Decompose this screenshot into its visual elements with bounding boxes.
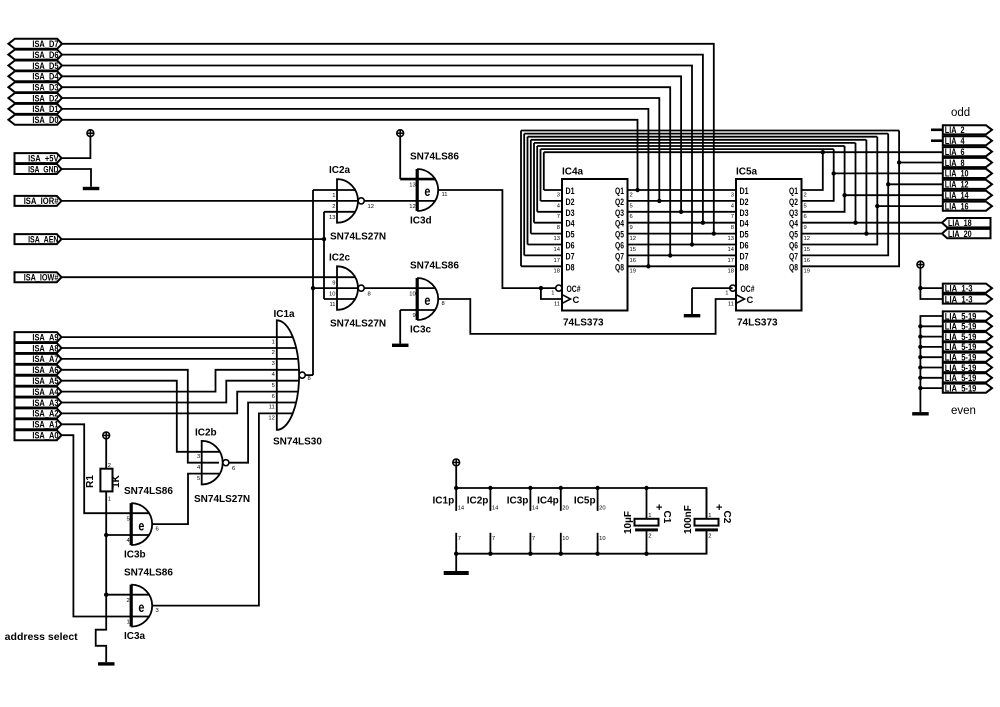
wire ISA_D3 to latch bus <box>62 87 670 255</box>
power symbol +5V (top left) <box>87 130 94 137</box>
pin 3 IC3a <box>156 608 159 614</box>
label D4/Q4 IC4a <box>557 218 633 231</box>
gate IC2c (3-in NOR) <box>337 266 358 310</box>
label even <box>951 405 976 417</box>
svg-text:Q6: Q6 <box>615 240 624 251</box>
svg-text:IC2c: IC2c <box>329 252 351 263</box>
svg-text:11: 11 <box>554 301 560 307</box>
gate IC1a (8-in NAND SN74LS30) <box>277 320 299 430</box>
latch IC4a (74LS373) <box>562 167 628 329</box>
wire ISA_+5V to power symbol <box>62 137 90 159</box>
svg-text:6: 6 <box>156 526 159 532</box>
svg-text:10: 10 <box>409 291 415 297</box>
wire IC5a Q5 to LIA_20 <box>802 233 943 235</box>
power pins IC3p <box>507 488 539 554</box>
svg-text:3: 3 <box>156 608 159 614</box>
svg-text:LIA_5-19: LIA_5-19 <box>945 342 977 352</box>
svg-text:D4: D4 <box>566 218 576 229</box>
connector LIA_1-3 (b) <box>943 294 992 304</box>
svg-text:5: 5 <box>197 476 200 482</box>
svg-text:18: 18 <box>554 269 560 275</box>
svg-text:e: e <box>138 599 144 615</box>
ground (address select) <box>98 662 115 665</box>
svg-text:17: 17 <box>728 258 734 264</box>
svg-text:1: 1 <box>272 339 275 345</box>
svg-text:Q8: Q8 <box>789 261 798 272</box>
pin 2 IC2a <box>332 204 335 210</box>
svg-text:SN74LS27N: SN74LS27N <box>330 232 386 243</box>
junction LIA_5-19 (2) <box>918 324 922 328</box>
gate IC3a (XOR) <box>131 585 152 627</box>
svg-text:2: 2 <box>648 533 651 539</box>
svg-text:8: 8 <box>368 291 371 297</box>
wire R1 net to IC3a pin2 <box>106 594 149 596</box>
connector LIA_4 <box>943 136 992 146</box>
svg-text:14: 14 <box>458 506 465 512</box>
svg-text:IC3b: IC3b <box>124 550 146 561</box>
junction Q3/LIA <box>842 193 846 197</box>
svg-text:1: 1 <box>126 620 129 626</box>
svg-text:D8: D8 <box>566 261 575 272</box>
connector LIA_5-19 (6) <box>943 363 992 373</box>
wire power stem <box>455 466 457 488</box>
pin 11 IC3d <box>442 192 448 198</box>
pin 2 R1 <box>108 463 111 469</box>
svg-text:7: 7 <box>731 214 734 220</box>
pin 11 IC2c <box>329 302 335 308</box>
label D5/Q5 IC5a <box>728 229 810 242</box>
wire LIA link net7 <box>888 183 943 185</box>
connector ISA_D3 <box>8 82 62 92</box>
svg-text:13: 13 <box>329 215 335 221</box>
label D8/Q8 IC4a <box>554 261 636 274</box>
wire ISA_IOR# to IC2a pin2 <box>62 200 358 202</box>
junction R1/IC3a pin2 <box>104 593 108 597</box>
svg-text:ISA_D3: ISA_D3 <box>32 83 58 93</box>
pin 8 IC2c <box>368 291 371 297</box>
pin 8 IC1a <box>308 376 311 382</box>
svg-text:ISA_GND: ISA_GND <box>28 164 59 174</box>
junction IC2p bottom <box>488 552 492 556</box>
label IC3a <box>124 631 146 642</box>
label address select <box>5 631 78 643</box>
svg-text:LIA_10: LIA_10 <box>945 169 969 179</box>
svg-text:LIA_18: LIA_18 <box>948 218 972 228</box>
pin 13 IC2a <box>329 215 335 221</box>
connector LIA_16 <box>943 201 992 211</box>
pin 10 IC3c <box>409 291 415 297</box>
wire LIA link net3 <box>845 194 943 196</box>
svg-text:LIA_5-19: LIA_5-19 <box>945 353 977 363</box>
wire IC1a out <box>305 374 313 376</box>
wire LIA link net8 <box>899 162 943 164</box>
wire IC2b out to IC1a pin11 <box>229 403 296 463</box>
svg-text:74LS373: 74LS373 <box>563 318 604 329</box>
junction IC3p top <box>528 486 532 490</box>
svg-text:LIA_1-3: LIA_1-3 <box>945 283 973 293</box>
label SN74LS27N (IC2a) <box>330 232 386 243</box>
svg-text:C: C <box>747 294 754 305</box>
wire bus net D4 bracket/bundle <box>534 143 856 223</box>
svg-text:3: 3 <box>272 361 275 367</box>
op IC5a OC# bubble+label <box>725 283 755 296</box>
wire bus net D7 bracket/bundle <box>524 134 888 256</box>
pin 6 IC3b <box>156 526 159 532</box>
wire IC5a Q1 riser <box>802 152 823 190</box>
svg-text:8: 8 <box>557 225 560 231</box>
label SN74LS27N (IC2c) <box>330 319 386 330</box>
svg-text:IC3c: IC3c <box>410 324 432 335</box>
svg-text:IC3p: IC3p <box>507 496 529 507</box>
wire IC3a out to IC1a pin12 <box>152 413 293 605</box>
op IC5a clock pin C <box>728 294 754 307</box>
svg-text:ISA_D2: ISA_D2 <box>32 93 58 103</box>
pin 3 IC2b <box>197 454 200 460</box>
wire IC4a Q3 to IC5a D3 <box>628 211 737 213</box>
svg-text:1: 1 <box>108 497 111 503</box>
wire ISA_A9 to IC1a pin1 <box>62 336 293 338</box>
svg-text:19: 19 <box>804 269 810 275</box>
ground (IC3c pin9) <box>392 344 409 347</box>
svg-text:6: 6 <box>804 214 807 220</box>
junction ISA_D7/Q row <box>712 231 716 235</box>
junction R1/IC3b pin4 <box>104 533 108 537</box>
label D7/Q7 IC5a <box>728 250 810 263</box>
svg-text:ISA_D0: ISA_D0 <box>32 115 58 125</box>
wire IC4a Q7 to IC5a D7 <box>628 254 737 256</box>
connector ISA_A9 <box>15 332 62 342</box>
svg-text:ISA_A3: ISA_A3 <box>32 398 58 408</box>
wire ISA_A3 to IC1a pin5 <box>62 381 299 403</box>
connector LIA_12 <box>943 180 992 190</box>
junction IC4p top <box>559 486 563 490</box>
op IC2b bubble <box>223 460 229 466</box>
svg-text:16: 16 <box>630 258 636 264</box>
svg-text:13: 13 <box>554 236 560 242</box>
svg-text:2: 2 <box>804 192 807 198</box>
wire ISA_A6 to IC2b pin4 <box>62 370 219 463</box>
svg-text:e: e <box>138 517 144 533</box>
label IC3d <box>410 215 432 226</box>
svg-text:OC#: OC# <box>567 283 582 294</box>
svg-text:Q2: Q2 <box>615 196 624 207</box>
connector LIA_5-19 (8) <box>943 383 992 393</box>
capacitor C2 <box>683 488 732 554</box>
svg-text:3: 3 <box>197 454 200 460</box>
pin 1 R1 <box>108 497 111 503</box>
wire IC4a Q5 to IC5a D5 <box>628 233 737 235</box>
wire IC3d out to IC4a OC#/C <box>438 190 562 299</box>
svg-text:C: C <box>573 294 580 305</box>
wire bus net D8 bracket/bundle <box>521 131 899 267</box>
connector ISA_A8 <box>15 343 62 353</box>
svg-text:D2: D2 <box>566 196 575 207</box>
junction LIA_5-19 (3) <box>918 334 922 338</box>
pin 4 IC1a <box>272 372 276 378</box>
svg-text:6: 6 <box>232 466 235 472</box>
op IC1a bubble <box>299 372 305 378</box>
junction ISA_D2/Q row <box>657 199 661 203</box>
svg-text:2: 2 <box>708 533 711 539</box>
wire IC5a Q4 to LIA_18 <box>802 222 943 224</box>
label D4/Q4 IC5a <box>731 218 807 231</box>
connector LIA_5-19 (4) <box>943 342 992 352</box>
svg-text:LIA_1-3: LIA_1-3 <box>945 294 973 304</box>
connector ISA_D1 <box>8 104 62 114</box>
svg-text:D5: D5 <box>566 229 575 240</box>
pin 4 IC2b <box>197 465 201 471</box>
label D6/Q6 IC4a <box>554 240 636 253</box>
svg-text:IC3d: IC3d <box>410 215 432 226</box>
junction Q1/LIA_6 <box>821 150 825 154</box>
svg-text:IC5p: IC5p <box>574 496 596 507</box>
wire IC3b out to IC2b pin5 <box>152 474 219 524</box>
svg-text:1: 1 <box>708 513 711 519</box>
resistor R1 <box>85 469 122 492</box>
wire ISA_A5 to IC2b pin3 <box>62 381 219 452</box>
label odd <box>951 107 970 119</box>
connector LIA_5-19 (5) <box>943 353 992 363</box>
power pins IC4p <box>537 488 569 554</box>
pin 12 IC3d <box>409 204 415 210</box>
wire ISA_A8 to IC1a pin2 <box>62 347 296 349</box>
label D7/Q7 IC4a <box>554 250 636 263</box>
svg-text:D1: D1 <box>740 185 749 196</box>
junction LIA_5-19 (4) <box>918 345 922 349</box>
svg-text:LIA_5-19: LIA_5-19 <box>945 373 977 383</box>
wire power to R1 <box>105 439 107 469</box>
svg-text:Q5: Q5 <box>615 229 624 240</box>
pin 1 IC1a <box>272 339 275 345</box>
wire R1 net to IC3b pin4 <box>106 534 149 536</box>
svg-text:Q2: Q2 <box>789 196 798 207</box>
svg-text:LIA_12: LIA_12 <box>945 180 969 190</box>
pin 9 IC2c <box>332 280 335 286</box>
svg-text:74LS373: 74LS373 <box>737 318 778 329</box>
svg-text:ISA_A7: ISA_A7 <box>32 354 58 364</box>
wire LIA_5-19 (5) <box>920 356 943 358</box>
svg-text:D2: D2 <box>740 196 749 207</box>
svg-text:ISA_D1: ISA_D1 <box>32 104 58 114</box>
svg-text:1: 1 <box>551 290 554 296</box>
connector ISA_A2 <box>15 408 62 418</box>
svg-text:Q7: Q7 <box>789 250 798 261</box>
svg-text:9: 9 <box>412 313 415 319</box>
svg-text:LIA_6: LIA_6 <box>945 147 965 157</box>
svg-text:12: 12 <box>409 204 415 210</box>
svg-text:ISA_A4: ISA_A4 <box>32 387 59 397</box>
label D2/Q2 IC5a <box>731 196 807 209</box>
wire ISA_A1 to IC3b pin5 <box>62 424 149 513</box>
svg-text:2: 2 <box>108 463 111 469</box>
wire ISA_AEN to node <box>62 238 324 240</box>
svg-text:SN74LS86: SN74LS86 <box>124 486 173 497</box>
label D2/Q2 IC4a <box>557 196 633 209</box>
wire +5V rail <box>456 488 706 519</box>
connector LIA_5-19 (1) <box>943 311 992 321</box>
svg-text:3: 3 <box>731 192 734 198</box>
wire LIA_5-19 (8) <box>920 387 943 389</box>
wire ISA_A2 to IC1a pin6 <box>62 392 298 414</box>
svg-text:LIA_5-19: LIA_5-19 <box>945 383 977 393</box>
wire IC4a Q2 to IC5a D2 <box>628 200 737 202</box>
connector ISA_A3 <box>15 398 62 408</box>
wire LIA_5-19 bus to ground <box>920 316 943 412</box>
latch IC5a (74LS373) <box>736 167 802 329</box>
junction IC5p top <box>595 486 599 490</box>
svg-text:IC4p: IC4p <box>537 496 559 507</box>
power symbol (R1) <box>103 432 110 439</box>
junction IC3p bottom <box>528 552 532 556</box>
pin 3 IC1a <box>272 361 275 367</box>
svg-text:ISA_+5V: ISA_+5V <box>28 153 59 163</box>
svg-text:D7: D7 <box>566 250 575 261</box>
wire gnd rail <box>456 531 706 553</box>
junction Q7/LIA <box>886 182 890 186</box>
stub LIA_2 <box>931 129 943 132</box>
svg-text:LIA_2: LIA_2 <box>945 125 965 135</box>
pin 5 IC1a <box>272 383 275 389</box>
svg-text:14: 14 <box>554 247 561 253</box>
svg-text:7: 7 <box>557 214 560 220</box>
junction ISA_D1/Q row <box>646 264 650 268</box>
svg-text:19: 19 <box>630 269 636 275</box>
op IC4a clock pin C <box>554 294 580 307</box>
wire ISA_D6 to latch bus <box>62 55 703 223</box>
ground (supply rail) <box>444 571 469 575</box>
wire ISA_IOW# to IC2c pin9 <box>62 276 355 278</box>
svg-text:LIA_5-19: LIA_5-19 <box>945 332 977 342</box>
connector LIA_1-3 (a) <box>943 283 992 293</box>
connector ISA_D5 <box>8 61 62 71</box>
capacitor C1 <box>623 488 672 554</box>
svg-text:10: 10 <box>599 536 605 542</box>
wire LIA link net6 <box>877 205 943 207</box>
svg-text:ISA_A8: ISA_A8 <box>32 343 58 353</box>
svg-text:SN74LS27N: SN74LS27N <box>330 319 386 330</box>
svg-text:e: e <box>424 183 430 199</box>
svg-text:LIA_20: LIA_20 <box>948 229 972 239</box>
junction ISA_D5/Q row <box>690 242 694 246</box>
svg-text:16: 16 <box>804 258 810 264</box>
svg-text:IC2b: IC2b <box>195 428 217 439</box>
connector LIA_18 <box>942 218 991 228</box>
wire IC5a Q5 riser <box>865 140 867 234</box>
pin 2 IC1a <box>272 350 275 356</box>
svg-text:7: 7 <box>458 536 461 542</box>
pin 1 IC2a <box>332 193 335 199</box>
svg-text:9: 9 <box>332 280 335 286</box>
connector ISA_A1 <box>15 419 62 429</box>
pin 8 IC3c <box>442 301 445 307</box>
svg-text:IC1p: IC1p <box>433 496 455 507</box>
gate IC2a (3-in NOR) <box>337 179 358 223</box>
svg-text:7: 7 <box>532 536 535 542</box>
stub LIA_4 <box>931 139 943 142</box>
svg-text:20: 20 <box>562 506 568 512</box>
wire IC2a out to IC3d pin12 <box>364 200 435 202</box>
label SN74LS86 (IC3d) <box>410 152 459 163</box>
connector ISA_IOW# <box>15 272 62 282</box>
wire IC5a Q7 riser <box>802 134 889 256</box>
svg-text:C1: C1 <box>661 511 672 524</box>
svg-text:2: 2 <box>272 350 275 356</box>
connector LIA_2 <box>943 125 992 135</box>
wire power to LIA_1-3 <box>920 268 943 299</box>
svg-text:SN74LS86: SN74LS86 <box>410 152 459 163</box>
svg-text:odd: odd <box>951 107 970 119</box>
svg-text:D1: D1 <box>566 185 575 196</box>
svg-text:2: 2 <box>332 204 335 210</box>
gate IC3d (XOR) <box>417 169 438 211</box>
junction IC1p top <box>454 486 458 490</box>
svg-text:LIA_5-19: LIA_5-19 <box>945 311 977 321</box>
connector LIA_5-19 (7) <box>943 373 992 383</box>
svg-text:7: 7 <box>492 536 495 542</box>
junction ISA_D4/Q row <box>679 210 683 214</box>
svg-text:12: 12 <box>268 416 274 422</box>
wire bus net D2 bracket/bundle <box>541 149 834 201</box>
wire R1 to jumper/ground <box>96 491 107 662</box>
junction Q2/LIA <box>832 171 836 175</box>
svg-text:9: 9 <box>630 225 633 231</box>
connector LIA_8 <box>943 158 992 168</box>
junction Q8/LIA <box>897 160 901 164</box>
op IC4a OC# bubble+label <box>551 283 581 296</box>
junction Q5/LIA <box>864 231 868 235</box>
svg-text:SN74LS86: SN74LS86 <box>124 567 173 578</box>
connector ISA_AEN <box>15 234 62 244</box>
connector ISA_D4 <box>8 71 62 81</box>
svg-text:ISA_A1: ISA_A1 <box>32 420 58 430</box>
svg-text:5: 5 <box>126 516 129 522</box>
svg-text:13: 13 <box>728 236 734 242</box>
junction IC1a-out / IC2c pin10 <box>311 286 315 290</box>
junction ISA_D3/Q row <box>668 253 672 257</box>
wire IC5a Q6 riser <box>802 137 878 245</box>
wire LIA_5-19 (6) <box>920 367 943 369</box>
svg-text:Q8: Q8 <box>615 261 624 272</box>
svg-text:ISA_A9: ISA_A9 <box>32 332 58 342</box>
connector LIA_14 <box>943 191 992 201</box>
svg-text:14: 14 <box>492 506 499 512</box>
wire IC3c out to IC5a C <box>438 299 736 334</box>
wire LIA_5-19 (3) <box>920 336 943 338</box>
connector LIA_5-19 (2) <box>943 322 992 332</box>
svg-text:10: 10 <box>562 536 568 542</box>
junction IC4p bottom <box>559 552 563 556</box>
svg-text:ISA_A5: ISA_A5 <box>32 376 58 386</box>
pin 9 IC3c <box>412 313 415 319</box>
svg-text:Q4: Q4 <box>789 218 799 229</box>
wire IC3c pin9 to ground <box>400 310 435 344</box>
wire bus net D1 bracket/bundle <box>544 152 943 190</box>
svg-text:IC5a: IC5a <box>736 167 758 178</box>
svg-text:14: 14 <box>728 247 735 253</box>
label SN74LS86 (IC3b) <box>124 486 173 497</box>
power pins IC5p <box>574 488 606 554</box>
connector ISA_+5V <box>15 153 62 163</box>
connector ISA_A6 <box>15 365 62 375</box>
pin 5 IC3b <box>126 516 129 522</box>
junction IC4a OC#/C <box>539 286 543 290</box>
wire bus net D5 bracket/bundle <box>531 140 867 234</box>
junction LIA_5-19 (6) <box>918 365 922 369</box>
connector ISA_A7 <box>15 354 62 364</box>
pin 12 IC2a <box>368 204 374 210</box>
svg-text:C2: C2 <box>721 511 732 524</box>
op IC2c bubble <box>358 285 364 291</box>
